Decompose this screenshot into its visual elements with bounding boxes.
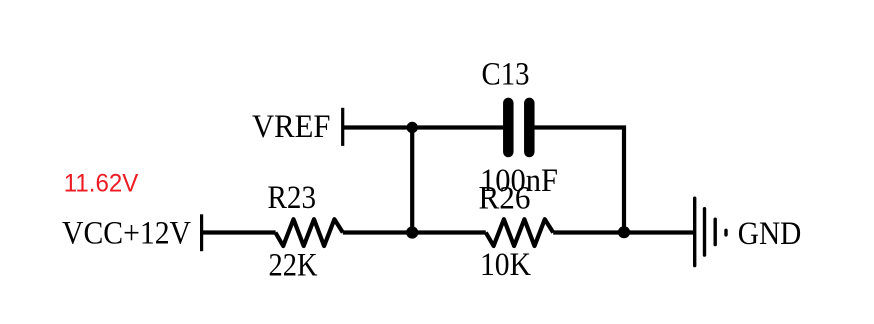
svg-text:10K: 10K <box>480 247 531 283</box>
node VCC+12V terminal <box>200 214 203 251</box>
svg-text:VREF: VREF <box>252 109 331 145</box>
capacitor C13 <box>508 103 529 152</box>
wire VREF to capacitor C13 left plate <box>343 125 504 129</box>
wire R26 to node B <box>553 230 695 234</box>
svg-text:VCC+12V: VCC+12V <box>62 215 191 251</box>
svg-text:22K: 22K <box>269 248 318 284</box>
svg-text:R23: R23 <box>268 180 317 216</box>
wire C13 right plate to node B <box>534 128 625 233</box>
node VREF terminal <box>341 108 344 146</box>
ground <box>695 198 726 265</box>
junction node B <box>618 226 630 238</box>
wire node A vertical <box>410 128 414 233</box>
wire R23 to node A <box>343 230 486 234</box>
resistor R23 <box>275 219 342 246</box>
junction node A <box>406 226 418 238</box>
junction node A top <box>407 122 418 133</box>
svg-text:100nF: 100nF <box>480 163 558 199</box>
resistor R26 <box>486 219 553 246</box>
wire VCC+12V to resistor R23 <box>202 230 276 234</box>
svg-text:C13: C13 <box>482 56 530 92</box>
svg-text:11.62V: 11.62V <box>64 169 139 197</box>
svg-text:GND: GND <box>738 216 802 252</box>
